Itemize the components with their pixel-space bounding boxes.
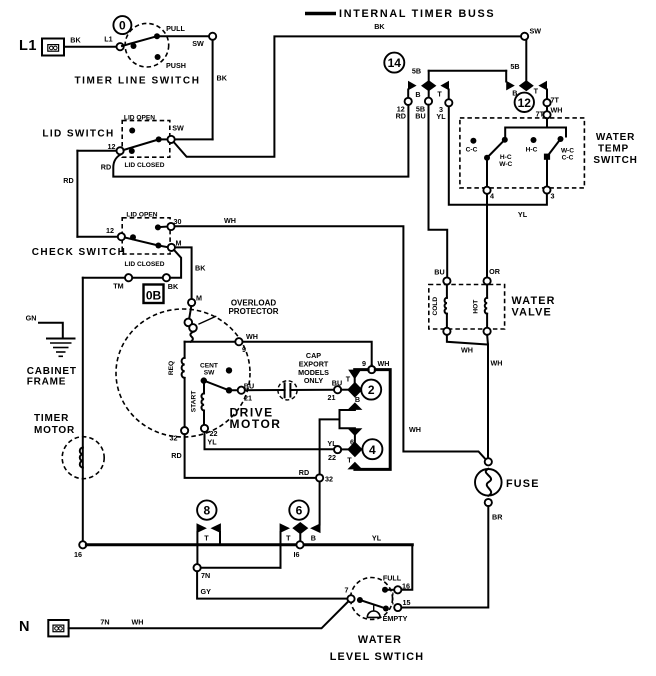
terminal 3 water temp: [543, 186, 554, 200]
svg-text:T: T: [437, 89, 442, 98]
fuse: [475, 458, 540, 521]
svg-text:WATER: WATER: [512, 295, 556, 307]
REQ winding: [168, 342, 185, 427]
svg-text:SW: SW: [172, 123, 184, 132]
svg-text:9: 9: [362, 359, 366, 368]
wire 5B cross-link: [412, 62, 520, 82]
svg-text:LID CLOSED: LID CLOSED: [125, 162, 165, 169]
svg-text:16: 16: [74, 550, 82, 559]
svg-text:LID OPEN: LID OPEN: [126, 211, 157, 218]
svg-text:SW: SW: [204, 369, 215, 376]
svg-text:YL: YL: [436, 112, 446, 121]
svg-text:BK: BK: [195, 264, 206, 273]
wire YL timer 3 to water temp 3: [449, 106, 547, 219]
terminal 12 RD of timer: [396, 90, 412, 121]
valve terminal OR: [484, 277, 491, 284]
left bus down: [82, 278, 84, 542]
svg-text:LID OPEN: LID OPEN: [124, 114, 155, 121]
svg-text:WH: WH: [132, 617, 144, 626]
svg-text:BU: BU: [434, 267, 444, 276]
valve terminal BU: [443, 277, 450, 284]
svg-text:MOTOR: MOTOR: [230, 417, 282, 431]
water temp right switch: [526, 136, 575, 186]
svg-text:CENT: CENT: [200, 362, 218, 369]
svg-text:FUSE: FUSE: [506, 478, 540, 490]
svg-text:BK: BK: [374, 22, 385, 31]
terminal 16 left bus: [74, 541, 86, 559]
terminal TM: [113, 274, 132, 290]
svg-text:WH: WH: [224, 216, 236, 225]
legend INTERNAL TIMER BUSS: [305, 8, 495, 20]
svg-text:OR: OR: [489, 267, 501, 276]
terminal 5B BU of timer: [415, 91, 432, 121]
svg-text:WH: WH: [461, 346, 473, 355]
svg-text:YL: YL: [327, 439, 337, 448]
svg-text:BK: BK: [168, 282, 179, 291]
svg-text:RD: RD: [101, 163, 111, 172]
svg-text:0B: 0B: [146, 289, 162, 303]
svg-text:BU: BU: [415, 112, 425, 121]
water level switch: [330, 573, 425, 663]
circled 0: [113, 16, 131, 34]
svg-text:I6: I6: [294, 550, 300, 559]
svg-text:WH: WH: [246, 332, 258, 341]
jog between contacts 2 and 4: [340, 410, 355, 428]
terminal L1: [19, 38, 64, 56]
svg-text:9: 9: [242, 345, 246, 354]
svg-text:LEVEL SWTICH: LEVEL SWTICH: [330, 651, 425, 663]
svg-text:6: 6: [296, 504, 303, 518]
svg-text:PROTECTOR: PROTECTOR: [228, 307, 278, 316]
svg-text:16: 16: [402, 581, 410, 590]
wire common of contacts 2-4: [320, 419, 340, 524]
svg-text:FRAME: FRAME: [27, 377, 67, 388]
svg-text:21: 21: [244, 393, 252, 402]
circled 14: [384, 53, 404, 73]
wire RD motor 32 down: [185, 434, 316, 478]
circled 12: [515, 93, 534, 112]
svg-text:RD: RD: [396, 112, 406, 121]
svg-text:T: T: [534, 87, 539, 96]
svg-text:LID SWITCH: LID SWITCH: [42, 129, 114, 140]
wire BK down to lid switch: [175, 40, 228, 139]
wire WH check 30 to fuse: [175, 216, 486, 459]
terminal 21 motor: [238, 382, 254, 403]
svg-text:T: T: [347, 456, 352, 465]
svg-text:WH: WH: [378, 359, 390, 368]
svg-text:RD: RD: [171, 451, 181, 460]
svg-text:ONLY: ONLY: [304, 376, 324, 385]
svg-text:H-C: H-C: [526, 147, 538, 154]
terminal 9 motor: [235, 338, 246, 354]
svg-text:B: B: [311, 534, 316, 543]
node SW right: [521, 27, 541, 40]
START winding: [191, 384, 205, 425]
wire WH valve to fuse: [447, 335, 503, 458]
terminal 9 WH at contact 2: [362, 359, 389, 373]
svg-text:15: 15: [403, 598, 411, 607]
terminal 22 YL at contact 4: [327, 439, 341, 462]
svg-text:22: 22: [328, 453, 336, 462]
terminal 32 RD: [316, 474, 333, 483]
svg-text:12: 12: [108, 142, 116, 151]
svg-text:N: N: [19, 619, 30, 635]
COLD coil: [432, 285, 451, 335]
bracket wire of contacts 2-4: [355, 370, 390, 470]
svg-text:INTERNAL TIMER BUSS: INTERNAL TIMER BUSS: [339, 8, 495, 20]
svg-text:WH: WH: [409, 425, 421, 434]
svg-text:8: 8: [203, 504, 210, 518]
svg-text:HOT: HOT: [473, 300, 480, 314]
svg-text:VALVE: VALVE: [512, 307, 552, 319]
svg-text:TEMP: TEMP: [598, 144, 629, 155]
svg-text:COLD: COLD: [432, 297, 439, 316]
water temp left switch: [466, 137, 513, 187]
svg-text:WATER: WATER: [358, 634, 402, 646]
svg-text:GY: GY: [201, 587, 212, 596]
svg-text:L1: L1: [104, 35, 112, 44]
terminal 16 water level: [394, 581, 410, 593]
terminal 21 BU at contact 2: [328, 375, 351, 402]
svg-text:YL: YL: [207, 437, 217, 446]
circled 2: [361, 380, 381, 400]
wire OR water temp 4 to valve: [487, 194, 501, 278]
wire GY to water level 7: [197, 571, 347, 598]
terminal M motor: [188, 293, 202, 306]
svg-text:7T: 7T: [536, 109, 545, 118]
svg-text:12: 12: [518, 96, 532, 110]
circled 8: [197, 500, 216, 519]
svg-text:M: M: [176, 238, 182, 247]
svg-text:W-C: W-C: [561, 148, 574, 155]
bus to water level 16: [402, 545, 413, 590]
svg-text:WH: WH: [491, 358, 503, 367]
svg-text:T: T: [204, 534, 209, 543]
svg-text:T: T: [346, 375, 351, 384]
timer line switch: [74, 23, 200, 86]
svg-text:7T: 7T: [551, 95, 560, 104]
terminal N: [19, 619, 69, 636]
check switch: [32, 211, 170, 268]
svg-text:SW: SW: [530, 27, 542, 36]
svg-text:GN: GN: [26, 314, 37, 323]
lid switch: [42, 114, 184, 169]
svg-text:4: 4: [369, 443, 376, 457]
centrifugal switch: [200, 362, 238, 393]
svg-text:0: 0: [119, 19, 126, 33]
svg-text:LID CLOSED: LID CLOSED: [125, 261, 165, 268]
wire N to water level 7: [69, 601, 349, 628]
svg-text:B: B: [355, 395, 360, 404]
wire L1 BK: [64, 35, 117, 47]
svg-text:RD: RD: [299, 468, 309, 477]
terminal M check switch: [168, 238, 182, 251]
water valve box: [429, 285, 556, 330]
capacitor CAP EXPORT MODELS ONLY: [245, 351, 334, 400]
svg-text:SWITCH: SWITCH: [593, 155, 637, 166]
svg-text:3: 3: [551, 192, 555, 201]
svg-text:WATER: WATER: [596, 132, 635, 143]
wire lid sw 12 left down RD: [63, 151, 117, 237]
wire BK check M to motor M: [175, 247, 206, 298]
timer contact group 6: [280, 522, 321, 568]
svg-text:H-C: H-C: [500, 154, 512, 161]
svg-text:5B: 5B: [412, 66, 421, 75]
svg-text:PULL: PULL: [166, 24, 185, 33]
svg-text:32: 32: [170, 434, 178, 443]
svg-text:MOTOR: MOTOR: [34, 425, 75, 436]
terminal 16 on buss: [294, 541, 304, 559]
timer contact group 12: [506, 80, 547, 97]
timer contact group 8: [197, 523, 221, 564]
svg-text:T: T: [286, 534, 291, 543]
svg-text:L1: L1: [19, 38, 37, 54]
svg-text:SW: SW: [192, 39, 204, 48]
svg-text:M: M: [196, 293, 202, 302]
svg-text:YL: YL: [372, 533, 382, 542]
timer contact group 2: [341, 370, 368, 410]
svg-text:7N: 7N: [100, 617, 109, 626]
terminal 15 water level: [394, 598, 410, 611]
svg-text:WH: WH: [551, 105, 563, 114]
svg-text:START: START: [191, 391, 198, 413]
svg-text:7N: 7N: [201, 571, 210, 580]
svg-text:C-C: C-C: [562, 155, 574, 162]
svg-text:TM: TM: [113, 282, 123, 291]
terminal BK: [163, 274, 179, 291]
water temp switch input wiring: [505, 118, 566, 138]
terminal 30: [167, 217, 181, 230]
ground cabinet frame: [27, 339, 77, 388]
timer motor: [34, 413, 104, 479]
circled 4: [362, 439, 382, 459]
wire check M to left bus: [83, 250, 181, 278]
svg-text:BK: BK: [217, 74, 228, 83]
svg-text:TIMER LINE SWITCH: TIMER LINE SWITCH: [74, 76, 200, 87]
svg-text:CABINET: CABINET: [27, 366, 77, 377]
0B box: [144, 285, 164, 304]
timer contact group 14 : diamond and triangles: [408, 71, 449, 99]
svg-text:W-C: W-C: [499, 161, 512, 168]
svg-text:BR: BR: [492, 512, 503, 521]
wire 7N link: [201, 567, 281, 569]
timer contact group 4: [341, 428, 362, 469]
svg-text:32: 32: [325, 475, 333, 484]
wire BU timer 5B to valve: [429, 105, 448, 278]
svg-text:PUSH: PUSH: [166, 61, 186, 70]
terminal 7N: [194, 564, 211, 580]
circled 6: [289, 500, 308, 519]
terminal 7T WH 7T: [536, 90, 563, 119]
GN wire: [26, 314, 63, 339]
svg-text:EMPTY: EMPTY: [383, 614, 408, 623]
svg-text:5B: 5B: [510, 62, 519, 71]
wire lid switch SW up to buss: [174, 22, 521, 157]
svg-text:12: 12: [106, 226, 114, 235]
svg-text:RD: RD: [63, 176, 73, 185]
drive motor dashed circle: [116, 309, 281, 437]
main bottom buss: [86, 533, 412, 545]
svg-text:30: 30: [174, 217, 182, 226]
svg-text:21: 21: [328, 393, 336, 402]
svg-text:FULL: FULL: [383, 573, 402, 582]
HOT coil: [473, 285, 491, 335]
wire RD lid sw 12 to timer 12: [101, 105, 409, 176]
svg-text:REQ: REQ: [168, 361, 175, 375]
svg-text:2: 2: [368, 383, 375, 397]
svg-text:14: 14: [388, 56, 402, 70]
terminal 4 water temp: [483, 187, 494, 201]
overload protector: [185, 298, 279, 341]
svg-text:YL: YL: [518, 210, 528, 219]
wire YL motor 22 to contact 4: [205, 432, 334, 449]
svg-text:4: 4: [490, 192, 494, 201]
wire switch to SW node: [157, 33, 216, 48]
svg-text:C-C: C-C: [466, 147, 478, 154]
water temp switch box: [460, 118, 638, 188]
terminal 22 motor: [201, 425, 218, 447]
terminal 3 YL of timer: [436, 90, 452, 122]
svg-text:TIMER: TIMER: [34, 413, 69, 424]
svg-text:BK: BK: [70, 36, 81, 45]
svg-text:CHECK SWITCH: CHECK SWITCH: [32, 247, 127, 258]
svg-text:B: B: [415, 90, 420, 99]
svg-text:BU: BU: [332, 379, 342, 388]
svg-text:7: 7: [345, 586, 349, 595]
terminal 32 motor: [170, 427, 189, 460]
wire BR fuse to water level 15: [401, 506, 488, 607]
wire SW node down to contact 12: [525, 40, 527, 81]
motor top wire WH: [185, 332, 372, 366]
